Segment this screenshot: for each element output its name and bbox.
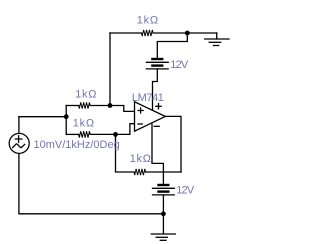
wire output to feedback drop — [165, 116, 181, 172]
wire left rail vertical — [65, 106, 67, 135]
wire vertical left rail from top to + input node — [109, 33, 111, 106]
AC source V3 circle — [9, 133, 29, 153]
svg-text:12V: 12V — [176, 185, 195, 197]
wire ground stub top right — [216, 33, 218, 39]
battery V1 12V — [146, 59, 168, 69]
wire R2 left lead — [66, 105, 78, 107]
wire source bottom to ground rail — [19, 154, 164, 214]
op-amp + input symbol — [138, 108, 143, 113]
wire R3 left lead — [66, 133, 78, 135]
svg-text:10mV/1kHz/0Deg: 10mV/1kHz/0Deg — [34, 139, 120, 151]
svg-text:LM741: LM741 — [132, 92, 164, 104]
wire op-amp V- pin down to battery V2 — [152, 124, 163, 184]
AC source + symbol — [15, 136, 22, 142]
junction bottom ground node — [161, 211, 166, 216]
op-amp U1 LM741 triangle — [135, 102, 166, 131]
junction + input node — [108, 103, 113, 108]
resistor R3 (1kOhm) — [79, 131, 91, 137]
op-amp - input symbol — [138, 123, 142, 125]
ground bottom — [151, 234, 175, 240]
wire battery V1 to op-amp V+ pin — [153, 69, 158, 110]
resistor R2 (1kOhm) — [79, 102, 91, 108]
resistor R4 feedback (1kOhm) — [134, 169, 146, 175]
svg-text:1kΩ: 1kΩ — [137, 15, 159, 27]
wire from node A down to battery V1 — [157, 33, 187, 58]
junction node A top — [185, 31, 190, 36]
AC source sine symbol — [13, 144, 25, 148]
svg-text:12V: 12V — [170, 59, 189, 71]
svg-text:1kΩ: 1kΩ — [75, 89, 97, 101]
wire top rail right segment — [153, 32, 217, 34]
wire top rail left segment — [110, 32, 142, 34]
wire feedback left segment up to - input node — [116, 134, 135, 172]
junction - input node — [113, 132, 118, 137]
ground top right — [205, 39, 229, 46]
wire source to input node — [19, 116, 66, 118]
wire source top stub — [18, 117, 20, 134]
resistor R1 top (1kOhm) — [142, 30, 154, 36]
wire feedback bottom right segment — [146, 171, 181, 173]
wire R2 right lead to + input — [90, 106, 134, 112]
op-amp V- supply symbol — [154, 125, 159, 127]
svg-text:1kΩ: 1kΩ — [130, 153, 152, 165]
wire battery V2 to bottom ground node — [162, 195, 164, 234]
op-amp V+ supply symbol — [156, 104, 161, 109]
wire R3 right lead to - input — [90, 124, 134, 135]
junction left rail node — [64, 114, 69, 119]
svg-text:1kΩ: 1kΩ — [73, 118, 95, 130]
battery V2 12V — [153, 185, 175, 195]
